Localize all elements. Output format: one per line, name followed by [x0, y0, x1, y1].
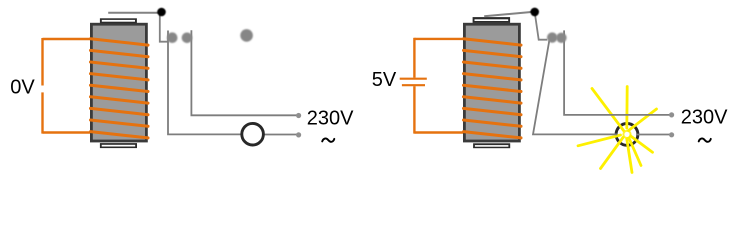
armature lever arm (left, horizontal): [108, 12, 161, 14]
terminal dot: 230V live (left): [296, 113, 301, 118]
wire: lamp to 230V neutral terminal (right): [637, 134, 671, 136]
label: ~ (left ac symbol): [322, 138, 334, 141]
electromagnet core (right coil former): [464, 24, 519, 141]
armature keeper plate (top, left circuit): [100, 18, 137, 23]
armature drop link to moving contact (right, swung): [535, 12, 548, 39]
terminal dot: 230V live (right): [669, 112, 674, 117]
ray down: [627, 139, 632, 173]
ray up: [625, 87, 628, 129]
wire: right loop bottom (orange) coil bottom lead: [414, 131, 463, 133]
light rays (yellow starburst): [578, 87, 657, 173]
ray left-down: [578, 135, 621, 146]
wire: right loop vertical lower segment (orange): [413, 86, 415, 133]
moving contact (left, on armature): [167, 32, 178, 43]
moving contact (right, closed): [547, 32, 557, 42]
ray up-right: [629, 109, 657, 131]
svg-text:230V: 230V: [681, 106, 728, 128]
svg-text:230V: 230V: [307, 107, 354, 129]
coil winding turns (left, orange): [91, 39, 149, 138]
label: ~ (right ac symbol): [699, 138, 711, 141]
wire: fixed contact to 230V live terminal (right): [564, 30, 671, 115]
ray up-left: [592, 89, 624, 131]
lamp L2 (lit): [616, 123, 638, 145]
terminal dot: 230V neutral (right): [669, 132, 674, 137]
wire: moving contact to lamp (right, slanted): [533, 41, 617, 135]
bright centre glow: [622, 130, 631, 139]
wire: right loop vertical upper segment (orange): [413, 38, 415, 78]
battery B1 top plate (orange): [400, 78, 427, 80]
pivot (black dot): [157, 8, 166, 17]
fixed contact (left): [182, 33, 193, 44]
wire: fixed contact to 230V live terminal: [191, 30, 297, 115]
wire: moving contact to lamp: [168, 31, 253, 135]
svg-text:5V: 5V: [372, 69, 397, 91]
wire: left loop top (orange) coil top lead: [43, 38, 91, 40]
spare contact dot (right of switch): [240, 29, 253, 42]
coil winding turns (right, orange): [464, 39, 522, 138]
wire: left loop vertical upper segment (orange): [41, 38, 43, 86]
wire: left loop bottom (orange) coil bottom lead: [43, 131, 91, 133]
terminal dot: 230V neutral (left): [296, 132, 301, 137]
keeper plate (bottom, left circuit): [100, 143, 137, 148]
battery B1 bottom plate (orange): [402, 84, 425, 86]
ray down-right: [629, 137, 642, 166]
wire: lamp to 230V neutral terminal: [253, 134, 298, 136]
armature keeper plate (top, right circuit, pulled down): [473, 17, 511, 23]
svg-text:0V: 0V: [10, 77, 35, 99]
keeper plate (bottom, right circuit): [473, 143, 510, 148]
wire: left loop vertical lower segment (orange, open gap at 0V source): [41, 92, 43, 133]
ray down-left: [601, 138, 624, 169]
fixed contact (right, closed): [556, 33, 566, 43]
armature drop link from pivot to moving contact: [160, 12, 168, 41]
pivot (black dot, right): [530, 8, 539, 17]
armature lever arm (right, tilted, attracted to core): [484, 12, 534, 16]
electromagnet core (left coil former): [91, 24, 146, 141]
lamp L1 (off): [242, 123, 264, 145]
ray right-down: [630, 136, 653, 153]
wire: right loop top (orange) coil top lead: [414, 38, 463, 40]
